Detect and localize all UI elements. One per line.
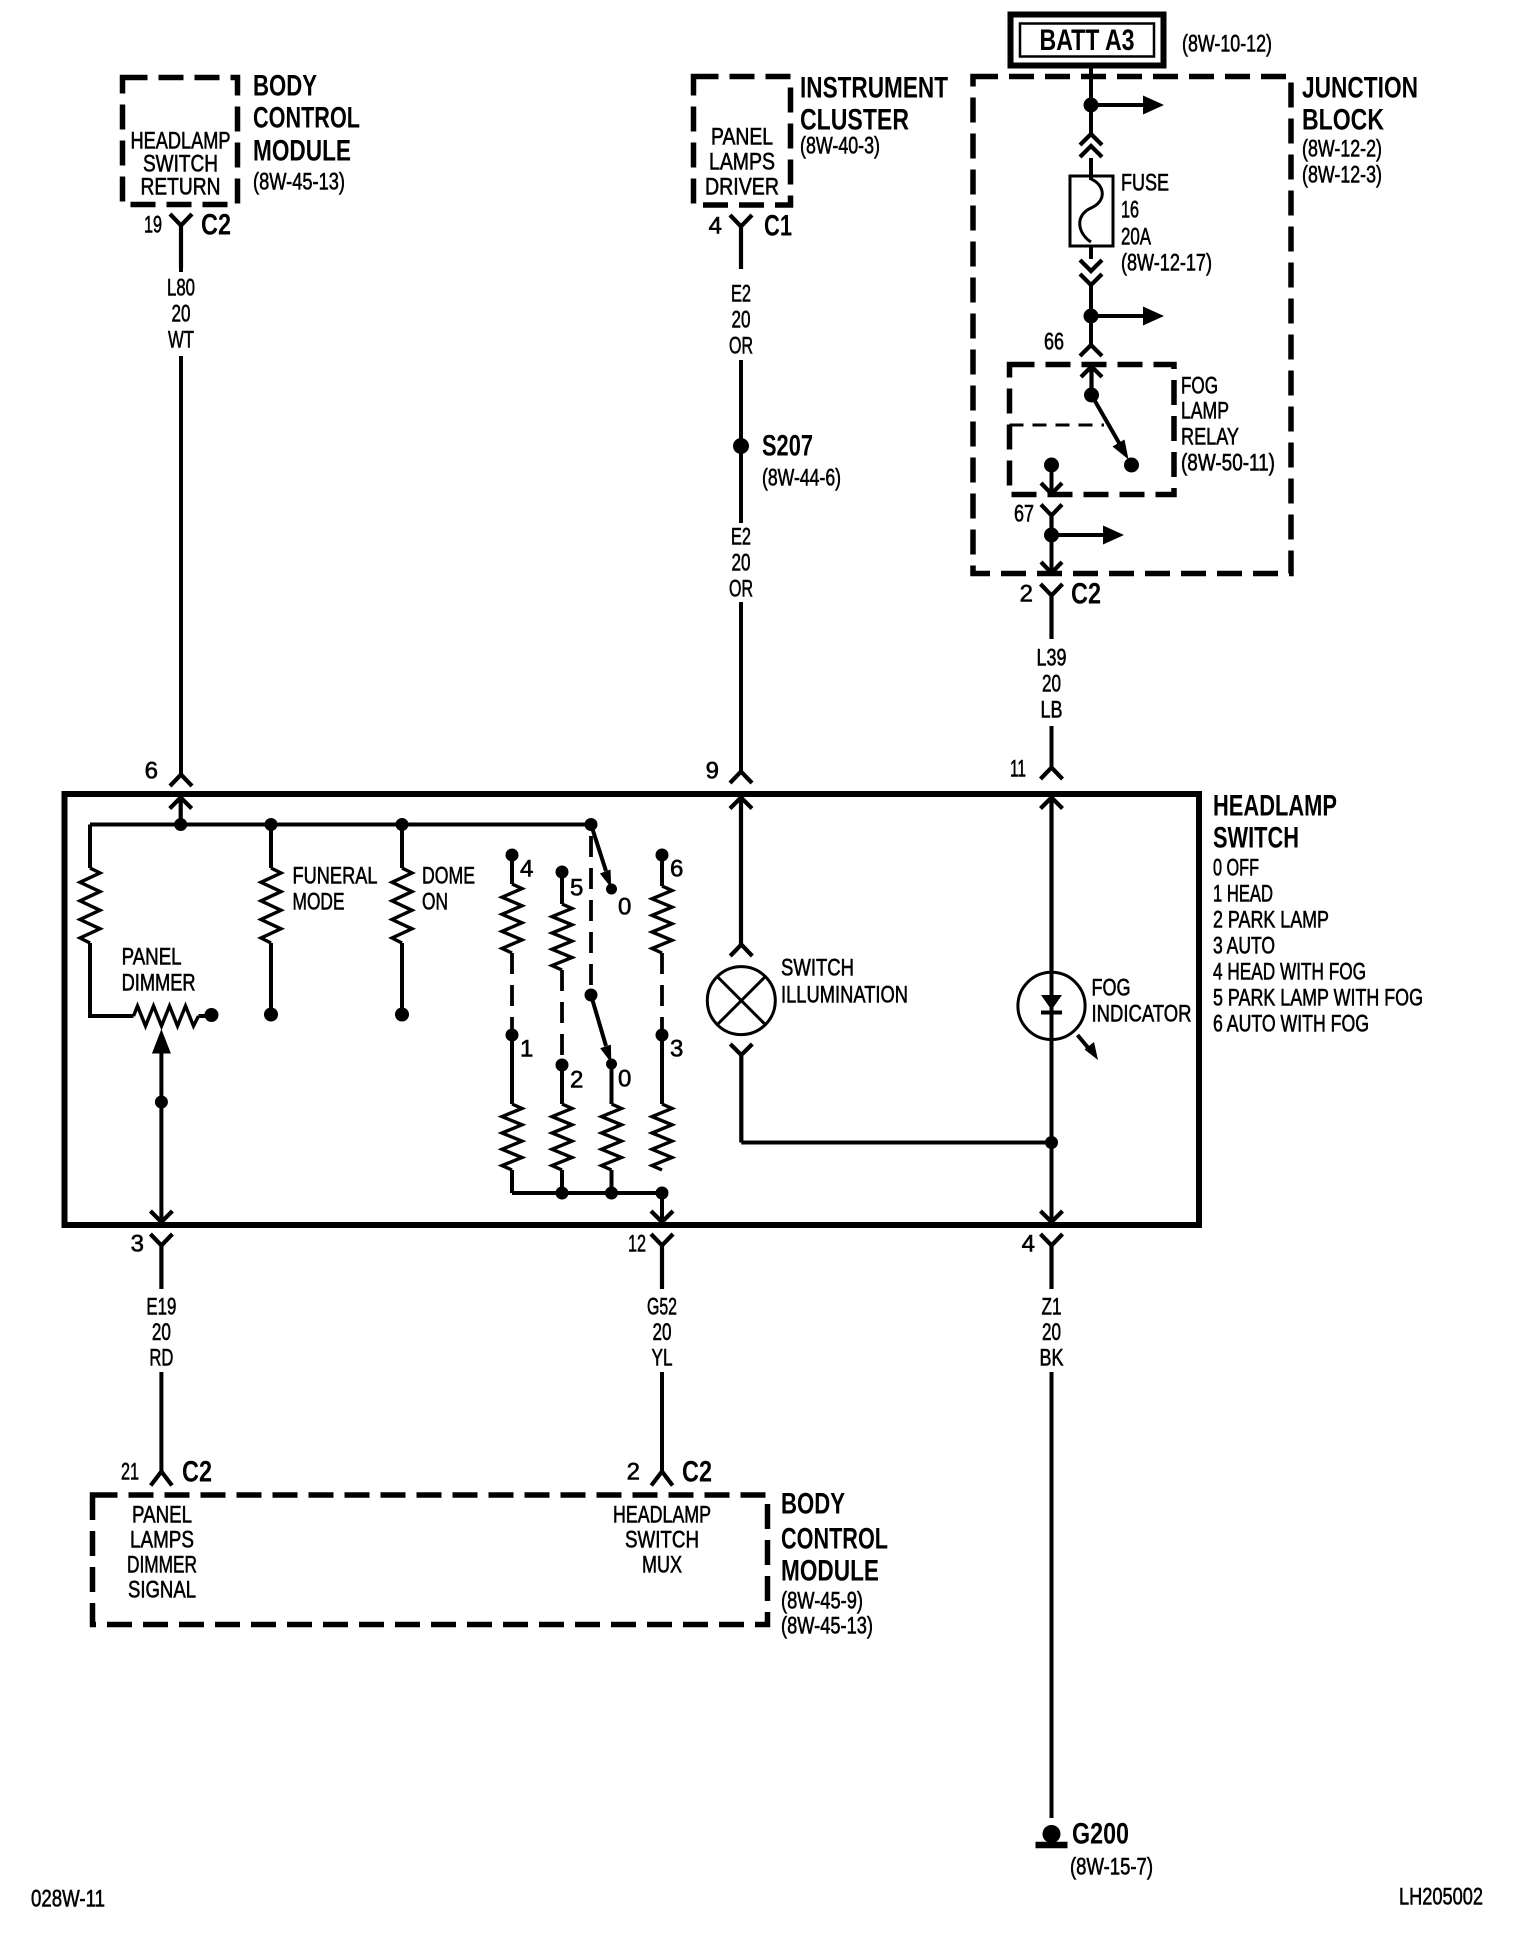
svg-text:PANEL: PANEL [711, 124, 773, 151]
svg-text:6: 6 [670, 856, 683, 883]
resistor output rail [512, 1191, 662, 1195]
svg-text:5 PARK LAMP WITH FOG: 5 PARK LAMP WITH FOG [1213, 985, 1423, 1012]
splice S207 [733, 438, 749, 454]
pin 9 chevron at headlamp switch [730, 772, 752, 784]
wire E2 segment to splice [739, 360, 743, 440]
svg-text:E2: E2 [731, 281, 751, 308]
svg-text:4 HEAD WITH FOG: 4 HEAD WITH FOG [1213, 959, 1366, 986]
svg-text:E2: E2 [731, 524, 751, 551]
pin 11 chevron at headlamp switch [1041, 768, 1063, 780]
position 5 resistor [552, 904, 572, 970]
svg-text:6 AUTO WITH FOG: 6 AUTO WITH FOG [1213, 1011, 1369, 1038]
svg-text:FUNERAL: FUNERAL [293, 863, 378, 890]
svg-text:67: 67 [1014, 501, 1034, 528]
relay common terminal [1084, 388, 1099, 403]
svg-text:FUSE: FUSE [1121, 170, 1169, 197]
svg-text:4: 4 [709, 213, 722, 240]
svg-text:ON: ON [422, 889, 448, 916]
relay N.O. terminal [1124, 458, 1139, 473]
connector C1 symbol at pin 4 [730, 215, 752, 269]
funeral mode resistor [261, 868, 281, 943]
label: FOG LAMP RELAY (8W-50-11) [1181, 373, 1275, 477]
svg-text:1: 1 [520, 1036, 533, 1063]
pin 12 connector symbol [651, 1234, 673, 1289]
label: BODY CONTROL MODULE (8W-45-9)(8W-45-13) [781, 1488, 888, 1640]
relay output terminal [1044, 458, 1059, 473]
connector C2 symbol at pin 2 (BCM) [651, 1472, 672, 1486]
svg-text:RELAY: RELAY [1181, 424, 1239, 451]
junction block box [973, 77, 1291, 574]
svg-text:2: 2 [627, 1459, 640, 1486]
svg-text:3: 3 [670, 1036, 683, 1063]
potentiometer end terminal [205, 1008, 219, 1022]
position 4 resistor [502, 884, 522, 953]
label FUNERAL MODE [293, 863, 378, 916]
svg-text:(8W-44-6): (8W-44-6) [762, 465, 841, 492]
svg-text:SWITCH: SWITCH [1213, 822, 1299, 855]
junction block exit chevron (down) [1041, 562, 1062, 573]
svg-text:20: 20 [1042, 1319, 1061, 1346]
internal bus wire [90, 823, 591, 827]
in-line connector double chevron (down) below fuse [1080, 260, 1102, 285]
label: panel lamps dimmer signal [127, 1502, 197, 1604]
wire rail to pin 12 [660, 1193, 664, 1221]
switch position 3 contact [656, 1029, 669, 1042]
connector C2 symbol at pin 19 [170, 214, 192, 268]
wire E2 segment to pin 9 [739, 602, 743, 771]
pin 67 connector symbol [1041, 505, 1062, 536]
dashed link 6-3 [660, 953, 664, 1030]
svg-text:66: 66 [1044, 329, 1064, 356]
junction dot [1045, 1136, 1058, 1149]
headlamp switch box [65, 794, 1200, 1225]
svg-text:16: 16 [1121, 197, 1139, 224]
label FUSE 16 20A (8W-12-17) [1121, 170, 1212, 277]
svg-text:4: 4 [520, 856, 533, 883]
svg-text:C2: C2 [1071, 578, 1101, 611]
pin 4 exit arrow [1041, 1211, 1063, 1222]
svg-text:9: 9 [706, 758, 719, 785]
dome on resistor [392, 868, 412, 943]
wire to junction block exit [1050, 535, 1054, 571]
switch position 5 contact [556, 866, 569, 879]
fuse 16 20A [1070, 176, 1113, 246]
relay movable contact [1092, 395, 1123, 448]
pin 4 connector symbol [1041, 1234, 1063, 1289]
svg-text:DIMMER: DIMMER [122, 970, 196, 997]
switch position 1 contact [506, 1029, 519, 1042]
pin 9 entry arrow [730, 798, 752, 945]
svg-text:5: 5 [570, 875, 583, 902]
pin 6 entry arrow [170, 798, 192, 825]
pin 67 exit arrow (down) [1041, 483, 1062, 494]
svg-text:PANEL: PANEL [132, 1502, 192, 1529]
position 6 resistor [652, 886, 672, 953]
svg-text:OR: OR [729, 576, 753, 603]
panel dimmer potentiometer (horizontal) [134, 1006, 199, 1026]
svg-text:(8W-45-13): (8W-45-13) [253, 169, 345, 196]
svg-text:3 AUTO: 3 AUTO [1213, 933, 1275, 960]
svg-text:L80: L80 [167, 275, 195, 302]
wiper wire to pin 3 [159, 1053, 163, 1221]
label: INSTRUMENT CLUSTER (8W-40-3) [800, 72, 948, 160]
instrument cluster box [694, 77, 791, 206]
wire below fuse [1089, 246, 1093, 259]
svg-text:0: 0 [618, 894, 631, 921]
label: HEADLAMP SWITCH + positions [1213, 790, 1423, 1038]
relay common entry arrow [1081, 367, 1102, 391]
svg-text:BLOCK: BLOCK [1302, 104, 1384, 137]
svg-text:CONTROL: CONTROL [253, 102, 360, 135]
svg-text:L39: L39 [1037, 645, 1067, 672]
svg-text:2: 2 [570, 1067, 583, 1094]
svg-text:MODE: MODE [293, 889, 345, 916]
pin 12 exit arrow [651, 1211, 673, 1222]
body control module (top) box [123, 78, 238, 205]
svg-text:20: 20 [653, 1319, 672, 1346]
svg-text:WT: WT [168, 327, 194, 354]
switch illumination lamp feed chevron [730, 945, 752, 957]
wire L80 upper segment [179, 268, 183, 272]
svg-text:Z1: Z1 [1042, 1294, 1062, 1321]
wiper dashed link [589, 836, 593, 985]
svg-text:BODY: BODY [253, 70, 317, 103]
switch position 4 contact [506, 849, 519, 862]
wire label Z1 20 BK [1040, 1294, 1064, 1372]
wire G52 to BCM [660, 1372, 664, 1471]
fog lamp relay box [1010, 365, 1175, 495]
body control module (bottom) box [93, 1495, 768, 1625]
svg-text:DOME: DOME [422, 863, 475, 890]
svg-text:G200: G200 [1072, 1818, 1129, 1851]
junction node with branch arrow [1084, 309, 1099, 324]
svg-text:LH205002: LH205002 [1399, 1884, 1483, 1911]
label: panel lamps driver [705, 124, 779, 201]
junction node with branch arrow [1084, 98, 1099, 113]
svg-text:2 PARK LAMP: 2 PARK LAMP [1213, 907, 1329, 934]
position 3 resistor [652, 1104, 672, 1170]
svg-text:SIGNAL: SIGNAL [128, 1577, 196, 1604]
wire label E2 20 OR (lower) [729, 524, 753, 603]
svg-text:20A: 20A [1121, 224, 1151, 251]
svg-text:028W-11: 028W-11 [31, 1886, 105, 1913]
svg-text:SWITCH: SWITCH [781, 955, 854, 982]
svg-text:INSTRUMENT: INSTRUMENT [800, 72, 948, 105]
svg-text:CONTROL: CONTROL [781, 1523, 888, 1556]
svg-text:MODULE: MODULE [253, 135, 351, 168]
dashed link 4-1 [510, 953, 514, 1030]
switch position 2 contact [556, 1059, 569, 1072]
svg-text:PANEL: PANEL [122, 944, 182, 971]
svg-text:21: 21 [121, 1459, 139, 1486]
wire from BATT A3 down [1089, 66, 1093, 133]
svg-text:RD: RD [149, 1345, 173, 1372]
svg-text:(8W-12-17): (8W-12-17) [1121, 250, 1212, 277]
svg-text:JUNCTION: JUNCTION [1302, 72, 1418, 105]
connector C2 symbol at pin 2 [1041, 584, 1063, 639]
wire L80 lower segment to pin 6 [179, 356, 183, 774]
svg-text:LAMPS: LAMPS [709, 149, 775, 176]
dashed link 5-2 [560, 970, 564, 1057]
svg-text:0: 0 [618, 1066, 631, 1093]
wire E2 segment below splice [739, 452, 743, 523]
svg-text:DIMMER: DIMMER [127, 1552, 197, 1579]
position 2 resistor [552, 1104, 572, 1170]
bus junction dots [174, 818, 187, 831]
svg-text:3: 3 [131, 1231, 144, 1258]
svg-text:C1: C1 [764, 210, 792, 243]
svg-text:INDICATOR: INDICATOR [1092, 1001, 1192, 1028]
svg-text:C2: C2 [682, 1456, 712, 1489]
fog indicator LED [1018, 971, 1098, 1221]
panel dimmer fixed resistor [80, 868, 100, 943]
svg-text:11: 11 [1010, 756, 1026, 783]
relay output wire to pin 67 [1050, 465, 1054, 492]
ground G200 [1036, 1825, 1068, 1845]
dome on end terminal [395, 1008, 409, 1022]
svg-text:6: 6 [145, 758, 158, 785]
relay armature divider (dashed) [1010, 424, 1105, 427]
svg-text:S207: S207 [762, 430, 813, 463]
svg-text:G52: G52 [647, 1294, 677, 1321]
svg-text:20: 20 [732, 550, 751, 577]
label PANEL DIMMER [122, 944, 196, 997]
wire E19 to BCM [159, 1372, 163, 1471]
svg-text:4: 4 [1022, 1231, 1035, 1258]
label: headlamp switch return [131, 128, 231, 201]
label: headlamp switch mux [613, 1502, 711, 1579]
wire label G52 20 YL [647, 1294, 677, 1372]
svg-text:FOG: FOG [1092, 975, 1131, 1002]
wire label E2 20 OR (upper) [729, 281, 753, 360]
svg-text:HEADLAMP: HEADLAMP [613, 1502, 711, 1529]
svg-text:DRIVER: DRIVER [705, 174, 779, 201]
dome on branch wire [400, 825, 404, 1009]
in-line connector double chevron (up) [1080, 134, 1102, 157]
connector C2 symbol at pin 21 [151, 1472, 172, 1486]
svg-text:0 OFF: 0 OFF [1213, 855, 1259, 882]
svg-text:2: 2 [1020, 581, 1033, 608]
svg-text:E19: E19 [146, 1294, 176, 1321]
svg-text:(8W-10-12): (8W-10-12) [1182, 31, 1272, 58]
lamp lower connector symbol [730, 1044, 752, 1143]
svg-text:FOG: FOG [1181, 373, 1218, 400]
svg-text:C2: C2 [201, 209, 231, 242]
svg-text:(8W-12-3): (8W-12-3) [1302, 162, 1382, 189]
svg-text:19: 19 [144, 212, 162, 239]
svg-text:(8W-50-11): (8W-50-11) [1181, 450, 1275, 477]
pin 6 chevron at headlamp switch [170, 775, 192, 787]
svg-text:MODULE: MODULE [781, 1555, 879, 1588]
svg-text:YL: YL [652, 1345, 673, 1372]
svg-text:BK: BK [1040, 1345, 1064, 1372]
svg-text:RETURN: RETURN [141, 174, 221, 201]
svg-text:LB: LB [1041, 697, 1063, 724]
wiper lower pivot [585, 989, 598, 1002]
position 0 resistor [602, 1104, 622, 1170]
svg-text:OR: OR [729, 333, 753, 360]
wiper wire junction dot [155, 1096, 168, 1109]
svg-text:ILLUMINATION: ILLUMINATION [781, 982, 908, 1009]
svg-text:(8W-15-7): (8W-15-7) [1070, 1854, 1153, 1881]
svg-text:20: 20 [1042, 671, 1061, 698]
label: BODY CONTROL MODULE (8W-45-13) [253, 70, 360, 196]
svg-text:BATT A3: BATT A3 [1040, 24, 1135, 57]
svg-text:MUX: MUX [642, 1552, 682, 1579]
svg-text:20: 20 [732, 307, 751, 334]
funeral mode branch wire [269, 825, 273, 1009]
svg-text:(8W-40-3): (8W-40-3) [800, 133, 880, 160]
svg-text:HEADLAMP: HEADLAMP [1213, 790, 1337, 823]
wire label E19 20 RD [146, 1294, 176, 1372]
label FOG INDICATOR [1092, 975, 1192, 1028]
funeral mode end terminal [264, 1008, 278, 1022]
position 1 resistor [502, 1104, 522, 1170]
pin 3 exit arrow [150, 1211, 172, 1222]
wire lamp to fog indicator leg [741, 1141, 1051, 1145]
BATT A3 feed box [1011, 15, 1164, 66]
svg-text:20: 20 [172, 301, 191, 328]
wiper arrow [152, 1029, 171, 1054]
svg-text:20: 20 [152, 1319, 171, 1346]
svg-text:C2: C2 [182, 1456, 212, 1489]
svg-text:(8W-45-13): (8W-45-13) [781, 1613, 873, 1640]
wiper upper contact arm [591, 825, 606, 872]
wire to fuse [1089, 158, 1093, 180]
wiper lower contact arm [591, 995, 606, 1046]
switch position 6 contact [656, 849, 669, 862]
panel dimmer branch wire [90, 825, 134, 1017]
label DOME ON [422, 863, 475, 916]
svg-text:SWITCH: SWITCH [625, 1527, 699, 1554]
svg-text:LAMP: LAMP [1181, 398, 1229, 425]
pin 66 chevron [1080, 345, 1102, 356]
svg-text:BODY: BODY [781, 1488, 845, 1521]
label SWITCH ILLUMINATION [781, 955, 908, 1009]
svg-text:12: 12 [628, 1231, 646, 1258]
wire label L80 20 WT [167, 275, 195, 354]
svg-text:(8W-45-9): (8W-45-9) [781, 1588, 863, 1615]
label: JUNCTION BLOCK (8W-12-2)(8W-12-3) [1302, 72, 1418, 189]
junction node with branch arrow [1044, 528, 1059, 543]
wire label L39 20 LB [1037, 645, 1067, 724]
svg-text:1 HEAD: 1 HEAD [1213, 881, 1273, 908]
switch illumination lamp [707, 967, 775, 1035]
pin 3 connector symbol [150, 1234, 172, 1289]
svg-text:(8W-12-2): (8W-12-2) [1302, 136, 1382, 163]
svg-text:LAMPS: LAMPS [130, 1527, 194, 1554]
wire L39 to pin 11 [1050, 726, 1054, 767]
wire Z1 to ground [1050, 1372, 1054, 1818]
pin 11 entry arrow [1041, 798, 1063, 972]
